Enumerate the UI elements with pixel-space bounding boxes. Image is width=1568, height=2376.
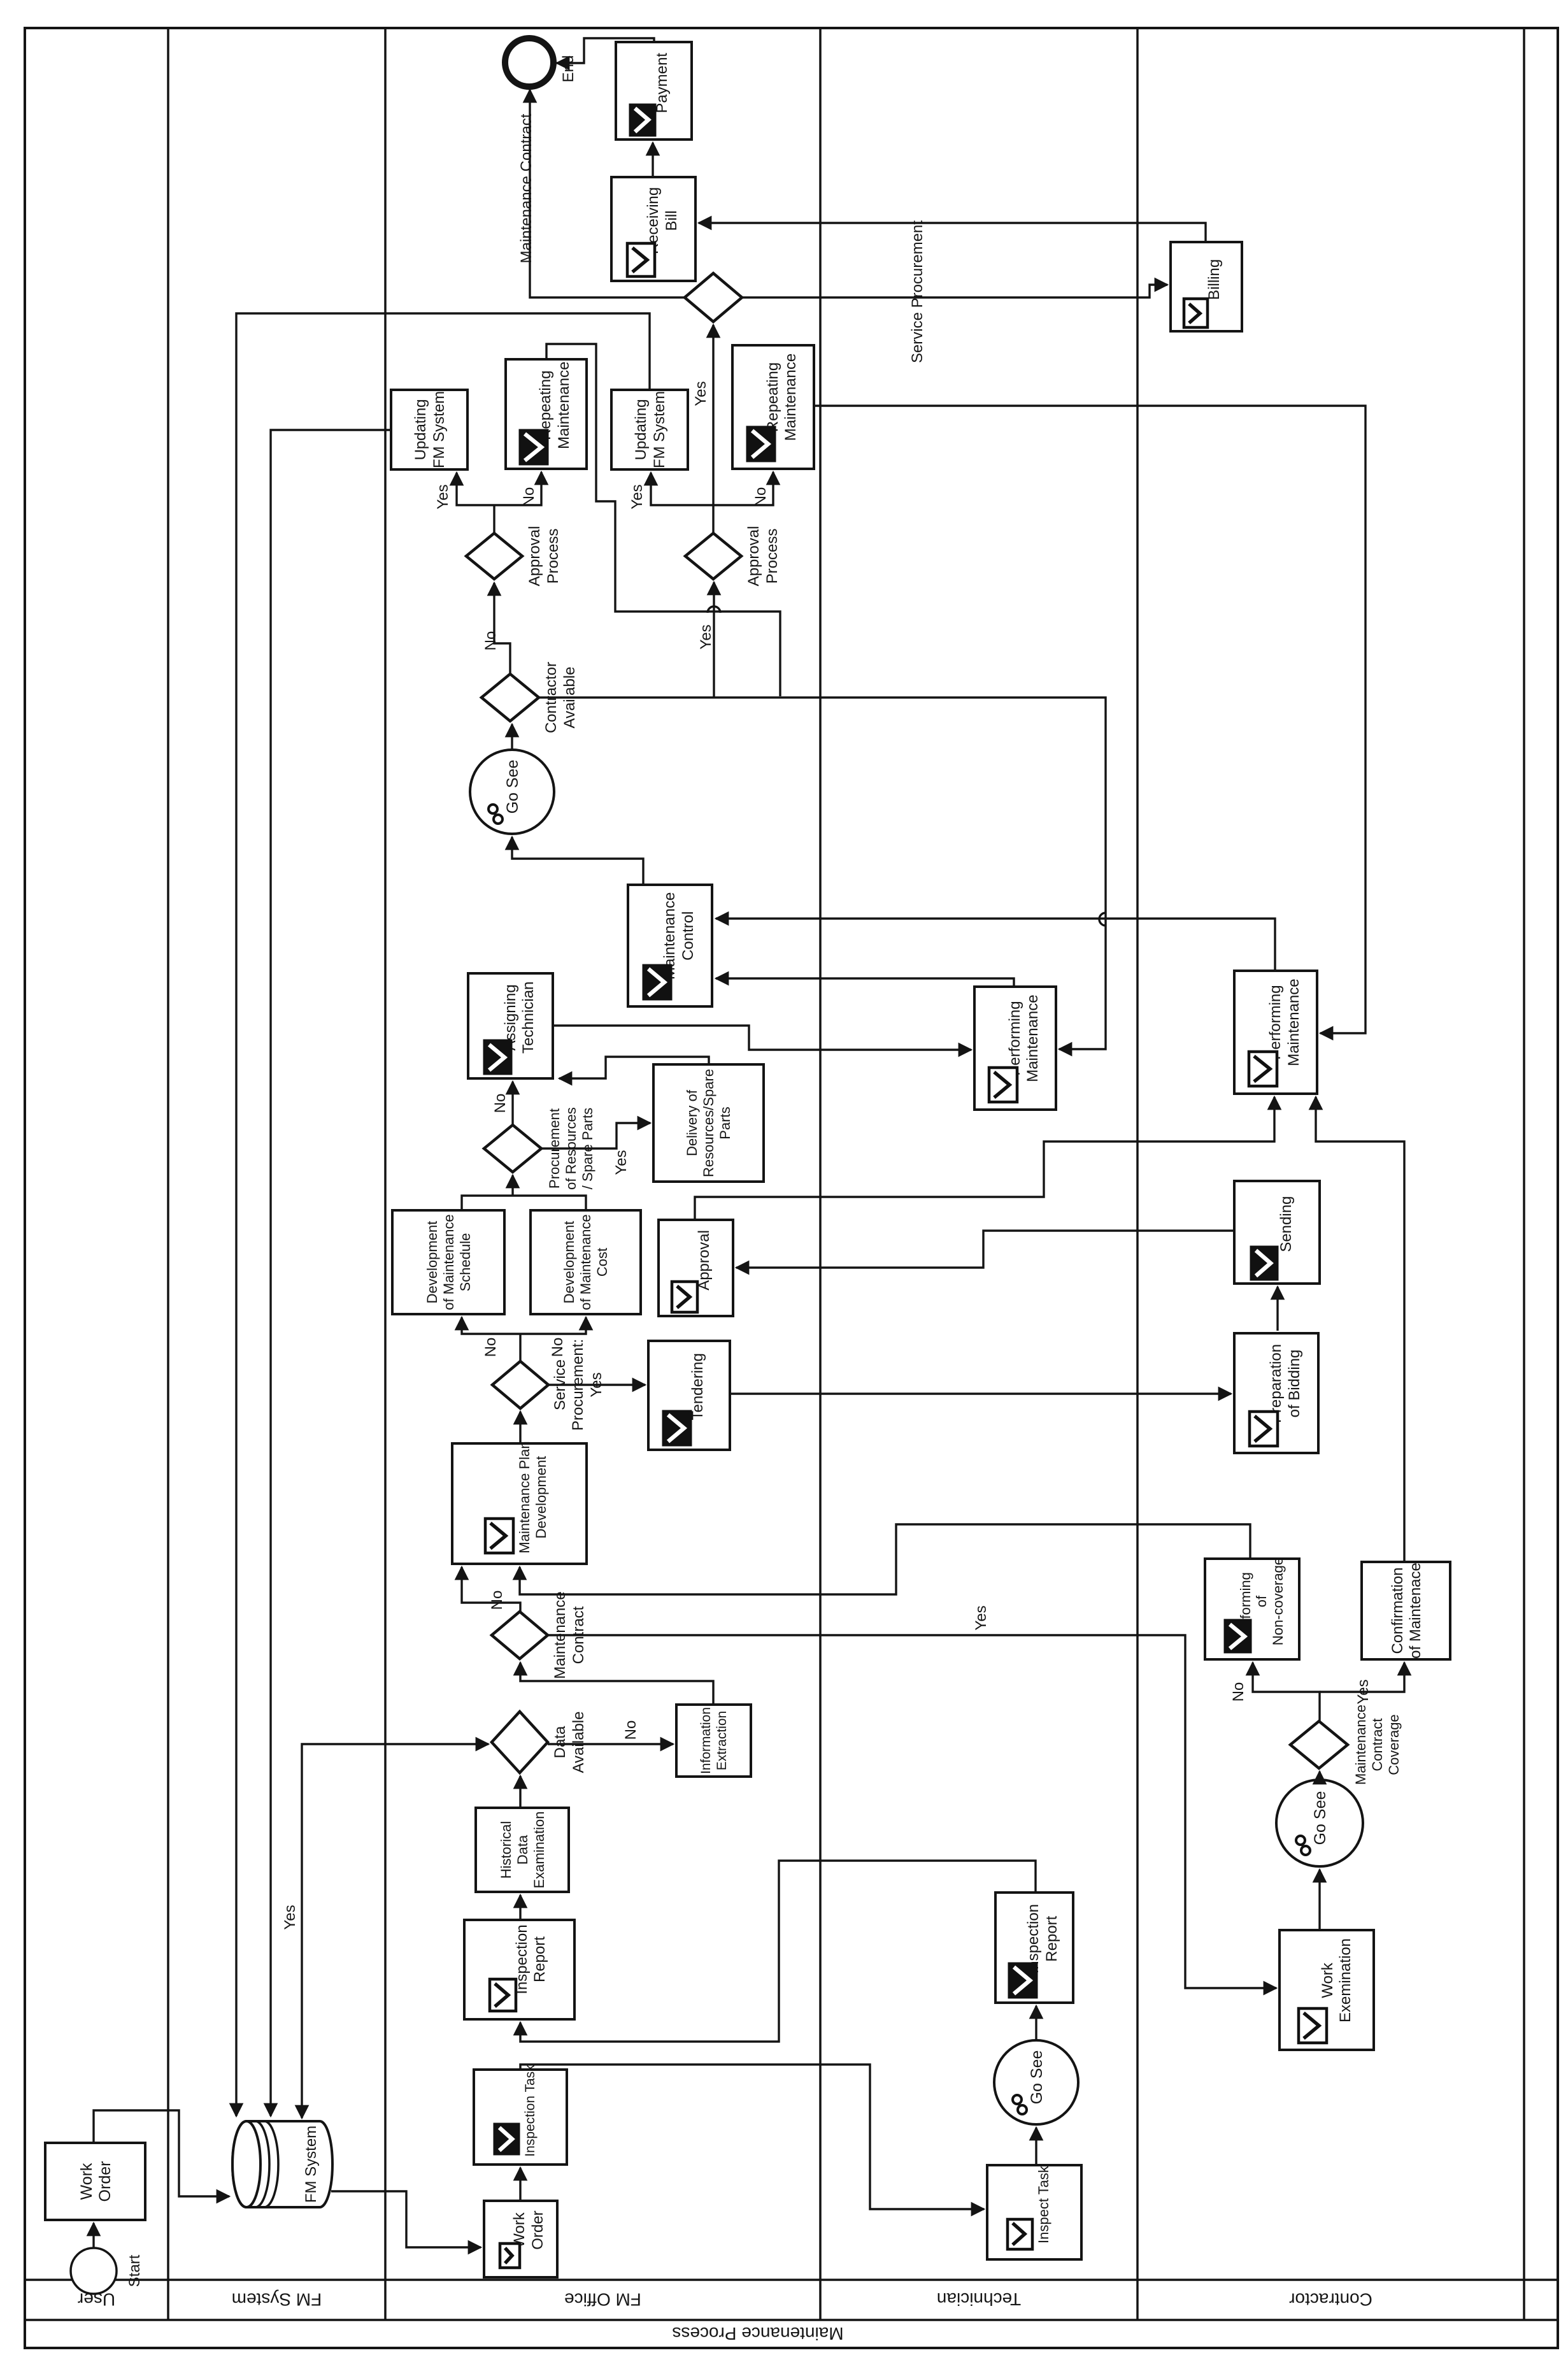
pool header divider (25, 2319, 1558, 2321)
svg-text:Start: Start (126, 2254, 143, 2287)
task Work Exemination (1279, 1930, 1374, 2050)
wire Assigning Technician to Performing Maintenance (Technician) (553, 1026, 971, 1050)
task Inspection Report (FM Office) (464, 1920, 574, 2019)
wire hop crossing near Maintenance Control line (1099, 913, 1106, 926)
wire Service Procurement Yes to Tendering (548, 1384, 645, 1385)
wire Start to Work Order (92, 2223, 94, 2248)
svg-text:Yes: Yes (629, 484, 646, 509)
wire Updating FM System 1 to FM System (271, 430, 391, 2116)
svg-text:WorkOrder: WorkOrder (78, 2161, 114, 2202)
task Informing of Non-coverage (1205, 1557, 1299, 1659)
gateway Contractor Available (481, 662, 578, 733)
wire Repeating Maintenance 1 loop to Performing Maintenance line (546, 344, 780, 696)
wire Go See to Inspection Report (Technician) (1035, 2006, 1037, 2040)
svg-text:No: No (622, 1721, 639, 1740)
svg-text:FM System: FM System (303, 2126, 320, 2203)
task Tendering (648, 1341, 730, 1450)
task Repeating Maintenance 1 (506, 359, 587, 469)
svg-text:No: No (520, 487, 538, 507)
task Development of Maintenance Schedule (392, 1210, 504, 1314)
svg-text:No: No (482, 1338, 499, 1357)
task Performing Maintenance (Technician) (974, 987, 1056, 1110)
wire Receiving Bill to Payment (652, 143, 653, 177)
svg-text:FM System: FM System (232, 2290, 322, 2310)
task Performing Maintenance (Contractor) (1234, 971, 1317, 1094)
svg-text:FM Office: FM Office (564, 2290, 641, 2310)
wire AP2 Yes to end gateway (712, 325, 714, 505)
svg-text:End: End (560, 55, 577, 83)
wire FM System to Work Order (FM Office) (331, 2191, 481, 2247)
svg-text:Yes: Yes (282, 1905, 299, 1929)
wire Procurement Yes to Delivery (541, 1123, 650, 1149)
wire Inspection Report to Historical Data Examination (519, 1895, 521, 1920)
task Preparation of Bidding (1234, 1333, 1318, 1453)
task Delivery of Resources Spare Parts (653, 1064, 764, 1182)
wire Service Procurement No to Development boxes (519, 1334, 521, 1361)
wire No branch to Development Schedule (462, 1317, 520, 1334)
wire Repeating Maintenance 2 loop to Performing Maintenance (Contractor) (814, 406, 1365, 1033)
task Inspect Task (987, 2165, 1081, 2259)
task Approval (659, 1220, 733, 1316)
wire Work Exemination to Go See (Contractor) (1318, 1870, 1320, 1930)
wire No branch to Development Cost (520, 1317, 586, 1334)
wire hop crossing near Approval Process 2 line (708, 606, 720, 613)
svg-text:Yes: Yes (1355, 1679, 1372, 1704)
wire Confirmation of Maintenace to Performing Maintenance (1316, 1097, 1404, 1562)
svg-text:No: No (1230, 1682, 1247, 1702)
task Inspection Task (474, 2065, 567, 2165)
lane line FM Office (819, 28, 822, 2320)
task Billing (1171, 242, 1242, 331)
svg-text:Go See: Go See (504, 760, 522, 814)
wire Preparation of Bidding to Sending (1276, 1287, 1278, 1331)
task Work Order (User) (45, 2143, 145, 2220)
intermediate event Go See (Technician) (994, 2040, 1078, 2124)
wire Information Extraction to Maintenance Contract (520, 1663, 713, 1705)
svg-text:Technician: Technician (937, 2289, 1021, 2309)
task Receiving Bill (611, 177, 695, 281)
task Maintenance Plan Development (452, 1441, 587, 1564)
wire Payment to End (557, 38, 654, 63)
svg-text:Billing: Billing (1206, 259, 1223, 300)
svg-text:No: No (488, 1591, 506, 1610)
wire Inspection Report (Technician) to Inspection Report (FM Office) (520, 1861, 1036, 2042)
gateway Procurement of Resources (484, 1107, 595, 1190)
wire Informing of Non-coverage to Maintenance Plan Development (520, 1524, 1250, 1594)
svg-text:Yes: Yes (697, 624, 715, 649)
wire AP2 No to Repeating Maintenance 2 (713, 472, 773, 505)
wire Maintenance Contract No to Maintenance Plan Development (462, 1567, 520, 1612)
start event Start (71, 2248, 143, 2294)
wire Maintenance Plan Development to Service Procurement (519, 1412, 521, 1443)
intermediate event Go See (FM Office) (470, 750, 554, 834)
gateway Maintenance Contract Coverage (1290, 1705, 1402, 1785)
wire Updating FM System 2 to FM System (236, 313, 650, 2116)
wire Inspection Task to Inspect Task (520, 2065, 984, 2209)
wire junction to Procurement gateway (511, 1175, 513, 1196)
wire Work Order to FM System (94, 2110, 229, 2196)
svg-text:Contractor: Contractor (1289, 2290, 1372, 2310)
wire Work Order to Inspection Task (519, 2168, 521, 2201)
svg-text:No: No (752, 487, 769, 507)
svg-text:Confirmationof Maintenace: Confirmationof Maintenace (1389, 1563, 1424, 1659)
wire Data Available No to Information Extraction (548, 1743, 673, 1745)
lane line User (167, 28, 169, 2320)
gateway Maintenance Contract (492, 1591, 587, 1678)
svg-text:Yes: Yes (434, 484, 452, 509)
wire AP1 No to Repeating Maintenance 1 (494, 472, 541, 505)
wire Maintenance Control to Go See (512, 837, 643, 885)
wire Development Schedule to Procurement gateway (462, 1196, 586, 1210)
lane line Technician (1136, 28, 1139, 2320)
wire Contractor Available No to Approval Process 1 (494, 583, 510, 674)
wire Delivery to Assigning Technician (559, 1057, 709, 1078)
wire Sending to Approval (736, 1231, 1234, 1268)
wire Go See to Contractor Available (511, 724, 513, 750)
task Information Extraction (676, 1705, 751, 1777)
task Assigning Technician (468, 973, 553, 1078)
task Maintenance Control (628, 885, 712, 1006)
svg-text:Maintenance Process: Maintenance Process (672, 2324, 843, 2344)
wire Approval to Performing Maintenance (Contractor) (695, 1097, 1274, 1220)
wire end gateway to Billing (Service Procurement) (742, 285, 1167, 297)
wire Inspect Task to Go See (Technician) (1035, 2128, 1037, 2165)
gateway Approval Process 2 (685, 526, 781, 587)
svg-text:Sending: Sending (1278, 1196, 1295, 1252)
svg-text:No: No (492, 1094, 509, 1113)
wire AP1 Yes to Updating FM System 1 (457, 473, 494, 505)
wire Go See to Maintenance Contract Coverage (1318, 1771, 1320, 1780)
lane line FM System (384, 28, 387, 2320)
gateway Approval Process 1 (466, 526, 562, 587)
wire FM System to Data Available (Yes) (302, 1744, 488, 2118)
wire Billing to Receiving Bill (699, 223, 1206, 242)
wire Tendering to Preparation of Bidding (730, 1392, 1231, 1394)
wire Maintenance Contract Yes to Work Exemination (546, 1635, 1276, 1988)
wire Approval Process 1 split stem (493, 505, 495, 533)
task Sending (1234, 1181, 1320, 1284)
wire end gateway to End (Maintenance Contract) (530, 90, 685, 297)
task Inspection Report (Technician) (995, 1893, 1073, 2003)
wire Performing Maintenance (Contractor) to Maintenance Control (716, 919, 1275, 971)
wire Maintenance Contract Coverage No to Informing (1253, 1663, 1320, 1721)
task Confirmation of Maintenace (1362, 1562, 1450, 1659)
task Work Order (FM Office) (484, 2201, 557, 2277)
gateway Maintenance Contract (end) (685, 273, 742, 322)
task Development of Maintenance Cost (531, 1210, 641, 1314)
svg-text:Go See: Go See (1311, 1791, 1329, 1845)
lane line Contractor (1523, 28, 1525, 2320)
svg-text:Maintenance Contract: Maintenance Contract (518, 113, 535, 263)
svg-text:Service Procurement: Service Procurement (909, 220, 926, 363)
svg-text:Maintenance PlanDevelopment: Maintenance PlanDevelopment (517, 1441, 549, 1553)
gateway Data Available (492, 1712, 587, 1773)
wire Historical Data Examination to Data Available (519, 1776, 521, 1808)
datastore FM System (232, 2121, 332, 2207)
gateway Service Procurement (492, 1339, 605, 1431)
svg-text:Yes: Yes (692, 381, 709, 406)
task Updating FM System 2 (611, 390, 688, 469)
task Updating FM System 1 (391, 390, 467, 469)
svg-text:Yes: Yes (613, 1150, 630, 1175)
svg-text:No: No (482, 631, 499, 651)
wire Procurement No to Assigning Technician (511, 1082, 513, 1125)
wire Performing Maintenance (Technician) to Maintenance Control (716, 978, 1014, 987)
task Repeating Maintenance 2 (732, 345, 814, 469)
task Historical Data Examination (476, 1808, 569, 1892)
end event End (505, 38, 553, 87)
lane header divider (25, 2279, 1558, 2281)
svg-text:Go See: Go See (1028, 2050, 1046, 2105)
wire Approval Process 2 split stem (712, 505, 714, 533)
svg-text:Inspection Task: Inspection Task (523, 2065, 538, 2157)
task Payment (616, 42, 692, 140)
wire Maintenance Contract Coverage Yes to Confirmation (1320, 1663, 1404, 1692)
svg-text:Inspect Task: Inspect Task (1036, 2165, 1051, 2244)
svg-text:Yes: Yes (973, 1605, 990, 1630)
intermediate event Go See (Contractor) (1276, 1780, 1363, 1866)
wire Contractor Available Yes east (539, 698, 1106, 1049)
svg-text:No: No (549, 1338, 566, 1357)
wire AP2 Yes to Updating FM System 2 (651, 473, 713, 505)
wire Contractor Available Yes to Approval Process 2 (713, 582, 715, 698)
